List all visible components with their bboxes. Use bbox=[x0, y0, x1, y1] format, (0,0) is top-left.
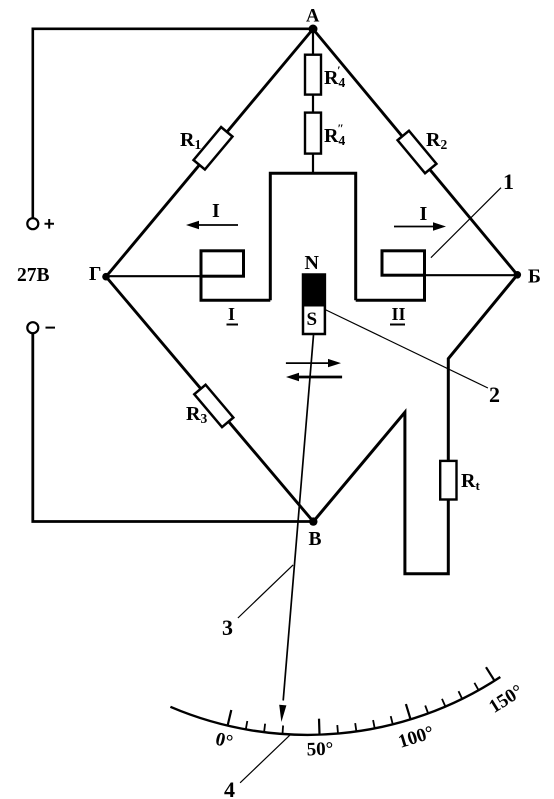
svg-text:3: 3 bbox=[222, 615, 233, 640]
svg-text:S: S bbox=[307, 309, 318, 330]
svg-text:Б: Б bbox=[528, 267, 541, 288]
svg-text:1: 1 bbox=[503, 169, 514, 194]
wire coil II to Б bbox=[425, 274, 518, 276]
svg-text:50°: 50° bbox=[306, 739, 333, 761]
node Г bbox=[102, 273, 110, 281]
oscillation arrow left bbox=[295, 376, 342, 379]
wire zigzag Б to Rt to В bbox=[313, 275, 517, 574]
wire arm A to Б bbox=[313, 29, 517, 275]
svg-text:N: N bbox=[305, 252, 320, 274]
resistor Rt bbox=[440, 461, 456, 500]
coil II (frame II) bbox=[382, 251, 425, 275]
magnet N half (black) bbox=[302, 274, 326, 307]
node A bbox=[309, 25, 318, 34]
magnet body bbox=[303, 275, 325, 335]
wire arm Г to В bbox=[106, 277, 313, 522]
current arrow right bbox=[394, 226, 439, 228]
coil I (frame I) bbox=[201, 251, 244, 276]
wire arm A to Г bbox=[106, 29, 313, 277]
node В bbox=[309, 517, 317, 525]
wire top from A to left rail bbox=[33, 29, 313, 218]
core left pole piece bbox=[201, 251, 270, 300]
resistor R3 bbox=[194, 385, 233, 427]
callout line 3 bbox=[238, 565, 293, 618]
svg-text:R4″: R4″ bbox=[324, 121, 345, 148]
svg-text:27В: 27В bbox=[17, 265, 50, 286]
node Б bbox=[514, 271, 522, 279]
needle (pointer) bbox=[283, 335, 313, 701]
terminal + circle bbox=[27, 218, 38, 229]
resistor R4'' bbox=[305, 113, 321, 154]
wire Г to coil I bbox=[106, 275, 201, 277]
svg-text:A: A bbox=[306, 7, 320, 27]
svg-text:В: В bbox=[309, 529, 322, 550]
svg-text:I: I bbox=[228, 304, 235, 324]
scale arc bbox=[170, 677, 500, 735]
resistor R1 bbox=[194, 127, 233, 169]
svg-text:I: I bbox=[420, 203, 428, 225]
svg-text:I: I bbox=[212, 200, 220, 222]
callout line 4 bbox=[240, 734, 291, 783]
resistor R2 bbox=[398, 131, 437, 174]
callout line 1 bbox=[431, 188, 501, 258]
core right pole piece bbox=[356, 251, 425, 300]
svg-text:2: 2 bbox=[489, 382, 500, 407]
plus sign bbox=[45, 219, 55, 229]
scale ticks bbox=[228, 667, 495, 735]
minus sign bbox=[46, 327, 56, 329]
oscillation arrow right bbox=[286, 362, 332, 364]
resistor R4' bbox=[305, 55, 321, 95]
svg-text:II: II bbox=[392, 304, 406, 324]
terminal - circle bbox=[27, 322, 38, 333]
svg-text:Г: Г bbox=[89, 264, 101, 285]
wire bottom from - terminal to node В bbox=[33, 333, 314, 521]
current arrow left bbox=[193, 224, 238, 226]
core magnetic circuit (П shape) bbox=[270, 173, 355, 300]
callout line 2 bbox=[325, 310, 488, 389]
wire A down to core bbox=[312, 29, 314, 173]
svg-text:4: 4 bbox=[224, 777, 235, 799]
